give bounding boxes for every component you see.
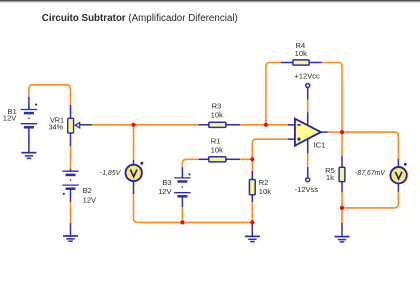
node B junction <box>264 123 268 127</box>
svg-text:10k: 10k <box>211 145 223 154</box>
svg-text:10k: 10k <box>295 49 307 58</box>
ground below B1 <box>21 153 36 159</box>
node G junction <box>340 206 344 210</box>
wire +12Vcc terminal to op-amp V+ <box>307 99 309 112</box>
svg-text:12V: 12V <box>158 187 172 196</box>
resistor R5 <box>339 156 345 192</box>
ground below R5 <box>335 223 350 242</box>
wire B3 top to R1 left <box>182 159 199 168</box>
power terminal +12Vcc <box>306 84 310 100</box>
svg-text:-12Vss: -12Vss <box>295 185 319 194</box>
svg-text:-87,67mV: -87,67mV <box>355 170 386 177</box>
wire node F down to R5 top <box>341 132 343 156</box>
node D junction <box>180 220 184 224</box>
resistor R2 <box>249 171 255 202</box>
wire VM1 bottom to rail node D <box>134 194 183 223</box>
wire R3 right to op-amp inverting input <box>240 124 289 126</box>
battery B3 <box>174 168 190 208</box>
wire op-amp V- to -12Vss terminal <box>307 153 309 167</box>
wire B1 top to VR1 top <box>29 85 71 106</box>
wire op-amp output to node F <box>327 131 342 133</box>
wire node A down to voltmeter VM1 top <box>133 125 135 161</box>
svg-text:R1: R1 <box>211 137 221 146</box>
node E junction <box>250 220 254 224</box>
svg-text:12V: 12V <box>83 196 97 205</box>
potentiometer VR1 <box>68 105 92 146</box>
battery B1 <box>21 97 38 153</box>
svg-text:B3: B3 <box>162 178 171 187</box>
svg-text:-1,85V: -1,85V <box>100 170 122 177</box>
wire node F to voltmeter VM2 top <box>342 132 398 159</box>
svg-text:IC1: IC1 <box>314 141 326 150</box>
wire VR1 bottom to B2 top <box>70 146 72 170</box>
wire R5 bottom to node G <box>341 192 343 208</box>
svg-text:10k: 10k <box>211 111 223 120</box>
wire B3 bottom to rail node D <box>181 207 183 223</box>
resistor R1 <box>199 157 240 162</box>
svg-text:Circuito Subtrator (Amplificad: Circuito Subtrator (Amplificador Diferen… <box>42 13 238 24</box>
svg-text:1k: 1k <box>326 173 334 182</box>
wire R2 bottom to node E <box>251 202 253 227</box>
svg-text:R3: R3 <box>212 101 222 110</box>
wire rail node D to node E <box>182 221 252 223</box>
wire B2 bottom to ground G2 <box>70 202 72 224</box>
wire R1 right to node C <box>240 158 253 160</box>
svg-text:34%: 34% <box>49 123 64 132</box>
wire node B up to R4 left <box>266 63 282 125</box>
svg-text:10k: 10k <box>259 187 271 196</box>
wire node G to ground G4 <box>341 208 343 223</box>
wire R4 right down to output node F <box>321 63 342 132</box>
power terminal -12Vss <box>306 167 310 182</box>
wire node C up to op-amp non-inverting input <box>252 139 288 159</box>
svg-text:B2: B2 <box>83 186 92 195</box>
voltmeter VM2 <box>390 159 406 192</box>
battery B2 <box>62 169 78 202</box>
wire node C down to R2 top <box>251 159 253 172</box>
op-amp IC1 <box>288 112 328 153</box>
wire VM2 bottom to node G <box>342 192 398 208</box>
ground below B2 <box>63 223 78 241</box>
svg-text:+12Vcc: +12Vcc <box>294 72 320 81</box>
node F junction <box>340 130 344 134</box>
ground below R2 <box>245 224 260 242</box>
voltmeter VM1 <box>126 160 144 194</box>
resistor R3 <box>199 122 240 127</box>
node A junction <box>131 123 135 127</box>
resistor R4 <box>281 60 322 65</box>
wire VR1 wiper to R3 left <box>92 124 200 126</box>
node C junction <box>250 157 254 161</box>
svg-text:12V: 12V <box>3 114 17 123</box>
